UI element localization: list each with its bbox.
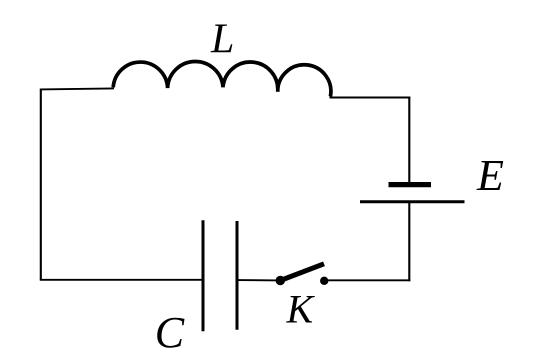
capacitor C right plate [236, 221, 239, 330]
svg-text:K: K [286, 286, 316, 331]
svg-text:L: L [210, 17, 234, 63]
battery E negative plate (short thick) [389, 182, 432, 187]
wire top-right horizontal [330, 97, 411, 99]
wire right vertical upper [408, 97, 410, 184]
svg-text:E: E [476, 151, 504, 200]
switch K lever [280, 264, 324, 281]
inductor L [113, 61, 331, 96]
wire right vertical lower [408, 202, 410, 281]
wire top-left horizontal [40, 88, 114, 89]
wire bottom-left horizontal [40, 279, 203, 281]
switch K left contact dot [276, 276, 285, 285]
wire capacitor to switch [237, 279, 280, 281]
svg-text:C: C [155, 308, 185, 354]
wire left vertical [40, 89, 42, 280]
switch K right contact dot [320, 277, 328, 285]
wire bottom-right horizontal [324, 279, 410, 281]
battery E positive plate (long thin) [360, 200, 465, 203]
capacitor C left plate [202, 220, 205, 331]
